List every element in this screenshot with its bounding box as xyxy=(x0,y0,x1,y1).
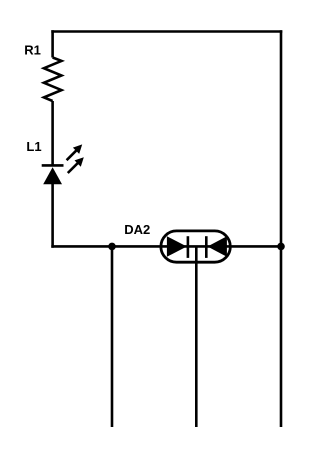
dual diode DA2 xyxy=(161,231,230,262)
wire right vertical xyxy=(280,30,283,427)
wire left vertical (top feed to R1) xyxy=(51,30,54,57)
LED L1 xyxy=(42,144,84,184)
wire R1 to L1 xyxy=(51,101,54,166)
wire bottom-left vertical xyxy=(111,246,114,427)
svg-text:DA2: DA2 xyxy=(124,222,150,237)
resistor R1 xyxy=(44,58,62,102)
wire L1 to middle rail xyxy=(51,183,54,248)
junction left xyxy=(108,243,116,251)
svg-text:L1: L1 xyxy=(26,139,41,154)
wire middle horizontal rail xyxy=(51,245,282,248)
wire DA2 center tap vertical xyxy=(195,246,198,427)
svg-text:R1: R1 xyxy=(24,42,41,57)
junction right xyxy=(277,243,285,251)
wire top horizontal xyxy=(51,30,282,33)
